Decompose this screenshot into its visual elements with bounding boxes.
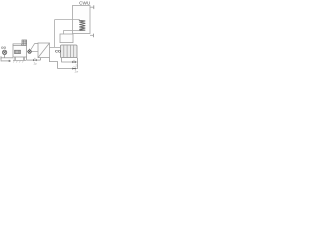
wire: lower left pipe bbox=[1, 60, 9, 62]
wire: exchanger bottom right drop bbox=[50, 58, 58, 69]
svg-text:CO: CO bbox=[55, 49, 61, 54]
boiler base bbox=[13, 60, 26, 62]
wire: supply riser bbox=[54, 20, 56, 48]
valve on cold water inlet bbox=[92, 34, 94, 38]
pump P1 bbox=[28, 50, 31, 53]
heating coil inside tank bbox=[79, 20, 85, 31]
wire: supply pipe to coil bbox=[55, 19, 80, 21]
valve Z2 on radiator return bbox=[72, 61, 75, 63]
boiler K1 body bbox=[13, 46, 27, 57]
wire: boiler to exchanger bbox=[27, 51, 38, 53]
wire: return line to exchanger bbox=[27, 59, 41, 61]
wire: tee into exchanger bottom bbox=[40, 58, 42, 61]
damper on lower left pipe bbox=[9, 60, 11, 62]
radiator CO bbox=[61, 45, 78, 58]
expansion tank bbox=[60, 34, 73, 43]
wire: radiator return riser bbox=[77, 58, 79, 69]
wire: return drop to expansion box bbox=[63, 30, 65, 34]
wire: radiator feed bbox=[50, 46, 61, 48]
heat exchanger diagonal bbox=[38, 43, 50, 58]
blower motor circles bbox=[1, 47, 3, 49]
wire: pump diagonal link bbox=[31, 44, 38, 50]
control box with grid on boiler bbox=[22, 40, 27, 46]
boiler lid bbox=[13, 44, 22, 46]
wire: coil return pipe bbox=[64, 29, 80, 31]
tank CWU (hot water cylinder) bbox=[73, 6, 91, 34]
heat exchanger W1 bbox=[38, 43, 50, 58]
valve Z1 bbox=[33, 59, 36, 61]
pipe stub: hot water outlet top right bbox=[90, 6, 94, 8]
boiler legs bbox=[14, 57, 24, 60]
pipe stub: cold water inlet bottom right bbox=[90, 34, 93, 36]
wire: lower return branch bbox=[58, 68, 78, 70]
wire: radiator bottom left drop bbox=[62, 58, 78, 62]
left end tie bbox=[0, 56, 2, 61]
svg-text:CWU: CWU bbox=[79, 0, 91, 5]
radiator section lines bbox=[64, 45, 74, 57]
wire: blower air pipe bbox=[1, 57, 13, 59]
blower stem bbox=[4, 55, 6, 58]
ground hatch under boiler bbox=[13, 61, 23, 63]
blower fan M1 bbox=[2, 50, 6, 54]
valve Z3 on lower branch bbox=[72, 67, 75, 69]
boiler door with grate bbox=[15, 50, 21, 53]
wire: boiler return drop bbox=[26, 57, 28, 60]
pipe end cap bbox=[0, 56, 2, 59]
valve on hot water outlet bbox=[93, 5, 95, 9]
svg-text:Zw: Zw bbox=[75, 70, 79, 74]
